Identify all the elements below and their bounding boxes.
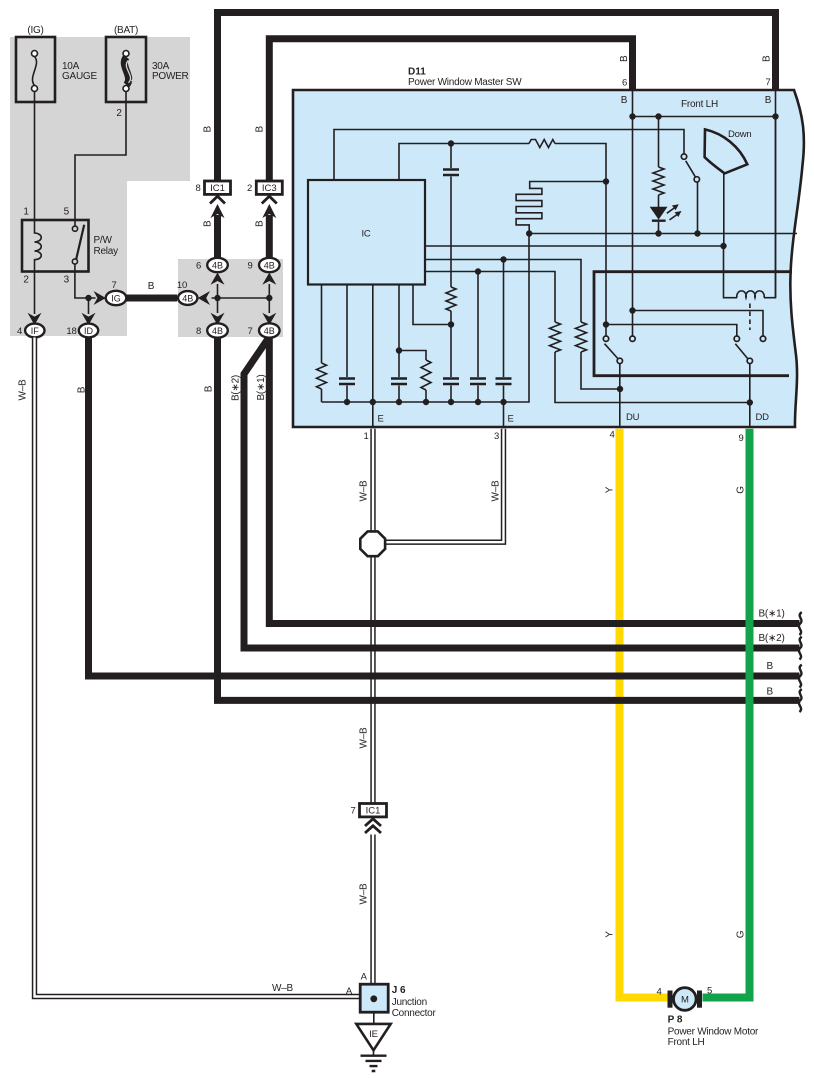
svg-text:8: 8 [196, 326, 201, 337]
connector solid arrow under IC3 [262, 204, 276, 218]
capacitor C6 [391, 379, 407, 385]
svg-text:W–B: W–B [491, 480, 502, 502]
LED emission arrows [667, 204, 682, 220]
wire net310 to DD contact right [633, 311, 764, 337]
junction node key switch net233 [694, 230, 700, 236]
junction node DD y402 [747, 399, 753, 405]
junction node relay pin3 branch [85, 295, 91, 301]
arrow into ID [82, 313, 96, 325]
arrow into IF [28, 313, 42, 325]
junction node cap1 top [448, 140, 454, 146]
svg-text:4: 4 [656, 987, 661, 998]
svg-text:2: 2 [247, 183, 252, 194]
wire branch down to ID [88, 298, 90, 314]
svg-text:7: 7 [765, 77, 770, 88]
wire J6 to ground [373, 1012, 375, 1024]
wire E1 exit pin1 [372, 402, 374, 427]
svg-text:B: B [77, 386, 88, 393]
svg-text:W–B: W–B [359, 883, 370, 905]
junction node net116 left [629, 113, 635, 119]
arrow into IG oval [94, 291, 106, 305]
connector IC3 pin2 top [247, 181, 282, 194]
ground symbol [361, 1050, 387, 1071]
P/W relay [22, 207, 118, 286]
junction node net116 mid [655, 113, 661, 119]
svg-text:GAUGE: GAUGE [62, 71, 97, 82]
wire W-B pin3 vertical and horizontal to octagon [386, 429, 504, 543]
svg-text:B: B [767, 687, 774, 698]
svg-text:7: 7 [247, 326, 252, 337]
svg-text:Connector: Connector [392, 1008, 437, 1019]
fuse F2 30A POWER (BAT) [106, 25, 189, 119]
svg-text:B: B [255, 126, 266, 133]
svg-text:Down: Down [728, 129, 752, 140]
switch DD fixed contact right [760, 336, 765, 341]
switch DD common contact [747, 358, 752, 363]
wire R6 to bus [321, 389, 323, 402]
wire B thick top run W2 to pin6 of master SW [269, 39, 632, 181]
arrow down into 4B pin7 [262, 313, 276, 325]
solenoid coil L1 [737, 291, 764, 298]
wire node down to cap [450, 325, 452, 378]
junction connector J6 [346, 972, 437, 1020]
wire R7 to bus [425, 390, 427, 402]
wire relay pin3 to IG oval [75, 272, 96, 299]
svg-text:4B: 4B [212, 260, 223, 270]
svg-text:10: 10 [177, 280, 187, 291]
connector solid arrow under IC1 [211, 204, 225, 218]
junction node x606 y324 [603, 321, 609, 327]
junction node 4B bus right [266, 295, 272, 301]
svg-text:Y: Y [605, 931, 616, 938]
svg-text:B: B [148, 281, 155, 292]
connector IC1 pin7 lower box [350, 804, 386, 835]
svg-text:ID: ID [84, 326, 94, 336]
wire R2 to node [450, 311, 452, 325]
wire R4 to net402b [555, 352, 750, 403]
wire Y yellow vertical and to motor [620, 429, 668, 998]
wire IC pin x347 [346, 285, 348, 378]
svg-text:P/W: P/W [94, 235, 113, 246]
wire DD common down to pin9 [749, 364, 751, 427]
wire break squiggle y700 [799, 689, 802, 712]
wire key switch to net233 [697, 182, 699, 234]
svg-text:9: 9 [247, 261, 252, 272]
svg-text:IE: IE [369, 1029, 378, 1040]
svg-text:POWER: POWER [152, 71, 189, 82]
wire 4B internal bus [212, 284, 270, 313]
svg-text:4B: 4B [212, 326, 223, 336]
svg-text:5: 5 [64, 207, 70, 218]
wire coil left lead [724, 246, 738, 298]
arrow up into 4B pin9 [262, 273, 276, 285]
svg-text:7: 7 [111, 280, 116, 291]
switch DU arm [605, 344, 618, 359]
resistor R5 vertical x581 [576, 322, 587, 352]
connector 4B pin7 [247, 323, 279, 337]
wire net116 horizontal [633, 116, 776, 118]
wire B thick IG to 4B [127, 295, 178, 302]
svg-text:B: B [255, 220, 266, 227]
svg-text:E: E [378, 414, 384, 425]
wire fuse BAT pin2 to relay pin5 [75, 92, 126, 221]
svg-text:18: 18 [66, 326, 76, 337]
wire net324 to DD contact left [606, 325, 737, 337]
wire break squiggle y648 [799, 637, 802, 660]
relay switch contact [72, 220, 84, 272]
key-off switch arm [686, 161, 696, 177]
svg-text:8: 8 [195, 183, 200, 194]
wire IC pin x372 E1 [372, 285, 374, 403]
arrow up into 4B pin6 [211, 273, 225, 285]
svg-text:B: B [204, 385, 215, 392]
svg-text:3: 3 [494, 431, 499, 442]
wire G green vertical and to motor [703, 429, 750, 998]
svg-text:B: B [767, 661, 774, 672]
wire IC right pin net259 [425, 260, 581, 323]
svg-text:IC3: IC3 [262, 183, 277, 194]
svg-text:M: M [681, 995, 689, 1006]
wire wedge to coil junction [723, 174, 725, 247]
key-off switch common contact [694, 177, 699, 182]
svg-text:B: B [203, 220, 214, 227]
junction node net116 right [772, 113, 778, 119]
wire R1 to x606 corner [555, 144, 606, 182]
wire DU common down to pin4 [619, 364, 621, 427]
switch DU common contact [617, 358, 622, 363]
motor P8 [656, 986, 759, 1049]
connector IC1 pin8 top [195, 181, 230, 194]
wire B thick IC1 arrow to 4B pin6 [214, 215, 221, 259]
wire W-B from IF down and right to J6 [35, 338, 361, 997]
svg-text:6: 6 [196, 261, 201, 272]
svg-text:Power Window Motor: Power Window Motor [668, 1027, 759, 1038]
junction nodes on bus [344, 399, 350, 405]
svg-text:(BAT): (BAT) [114, 25, 138, 36]
wire B thick IC3 arrow to 4B pin9 [266, 215, 273, 259]
switch DU fixed contact left [603, 336, 608, 341]
wire B thick from 4B pin8 corner right [218, 338, 800, 701]
wire B thick top run W1 to pin7 of master SW [218, 13, 776, 182]
connector IG pin7 [106, 280, 127, 305]
wire net233 horizontal [529, 233, 797, 235]
wire E2 exit pin3 [503, 402, 505, 427]
svg-text:P 8: P 8 [668, 1015, 683, 1026]
svg-text:DD: DD [756, 412, 770, 423]
junction node net259 x503 [500, 256, 506, 262]
connector IF pin4 [17, 324, 45, 338]
svg-text:J 6: J 6 [392, 985, 406, 996]
svg-text:G: G [736, 486, 747, 494]
wire coil right lead [764, 117, 776, 298]
junction node x632 y310 [629, 307, 635, 313]
svg-text:4: 4 [609, 430, 614, 441]
svg-text:2: 2 [116, 108, 122, 119]
svg-text:(IG): (IG) [27, 25, 43, 36]
svg-text:IF: IF [31, 326, 40, 336]
svg-text:5: 5 [707, 986, 712, 997]
switch unit box thick border [594, 272, 792, 376]
switch DU fixed contact right [630, 336, 635, 341]
LED D1 [650, 207, 668, 234]
svg-text:IG: IG [111, 293, 121, 303]
octagon splice node [360, 531, 385, 556]
gray background block 4B junction [178, 259, 283, 337]
svg-text:2: 2 [23, 275, 29, 286]
svg-text:B: B [621, 95, 628, 106]
connector arrow chevron under IC3 [262, 196, 277, 203]
wire B(*1) thick from 4B pin7 [269, 338, 799, 624]
svg-text:B: B [203, 126, 214, 133]
wire pin6 B down [632, 90, 634, 336]
svg-text:6: 6 [622, 78, 627, 89]
arrow down into 4B pin8 [211, 313, 225, 325]
svg-text:IC: IC [361, 229, 370, 240]
svg-text:B: B [762, 55, 773, 62]
svg-text:IC1: IC1 [210, 183, 225, 194]
junction node 4B bus left [214, 295, 220, 301]
wire break squiggle y676 [799, 665, 802, 688]
resistor R6 vertical x321 [317, 363, 327, 389]
wire R3 to LED [658, 195, 660, 207]
IC U1 block [308, 180, 425, 285]
svg-text:9: 9 [738, 433, 743, 444]
svg-text:B(∗2): B(∗2) [759, 633, 785, 644]
resistor R2 vertical [446, 287, 456, 311]
connector ID pin18 [66, 324, 98, 338]
wire IC top pin A to key switch [334, 130, 684, 181]
capacitor C2 [443, 379, 459, 385]
junction node x399 y350 [396, 347, 402, 353]
wire x478 chain down [477, 272, 479, 378]
mechanical dashed link coil to DD switch [749, 304, 751, 331]
svg-text:Front LH: Front LH [668, 1037, 705, 1048]
capacitor C4 [470, 379, 486, 385]
gray background block fuses and relay [10, 37, 190, 336]
svg-text:Front LH: Front LH [681, 99, 718, 110]
wire LED chain from net116 [658, 117, 660, 168]
svg-text:W–B: W–B [18, 379, 29, 401]
wire IC top pin B [399, 144, 529, 181]
svg-text:7: 7 [350, 806, 355, 817]
arrow into 4B pin10 [198, 291, 210, 305]
svg-text:A: A [346, 986, 353, 997]
connector arrow chevron under IC1 [210, 196, 225, 203]
svg-text:B: B [765, 95, 772, 106]
svg-text:B(∗1): B(∗1) [759, 609, 785, 620]
junction node net271 x478 [475, 268, 481, 274]
svg-text:W–B: W–B [359, 727, 370, 749]
capacitor C3 [496, 379, 512, 385]
svg-text:W–B: W–B [272, 983, 294, 994]
wire x606 down to DU contact [605, 182, 607, 337]
switch DD fixed contact left [734, 336, 739, 341]
svg-text:4B: 4B [264, 326, 275, 336]
svg-text:D11: D11 [408, 67, 426, 78]
wire break squiggle y623 [799, 612, 802, 635]
svg-text:3: 3 [64, 275, 70, 286]
svg-text:Relay: Relay [94, 246, 119, 257]
svg-text:Power Window Master SW: Power Window Master SW [408, 77, 522, 88]
IC bottom pin wires [321, 285, 323, 364]
wire B thick from ID corner right [89, 338, 800, 677]
ground triangle IE [356, 1024, 390, 1050]
wire W-B pin1 vertical to J6 [370, 429, 375, 984]
wire branch to R7 [399, 351, 426, 361]
svg-text:B(∗2): B(∗2) [231, 375, 242, 401]
svg-text:Y: Y [605, 486, 616, 493]
svg-text:Junction: Junction [392, 997, 427, 1008]
svg-text:B: B [619, 55, 630, 62]
svg-text:4B: 4B [264, 260, 275, 270]
junction node DU y389 [617, 386, 623, 392]
svg-text:4: 4 [17, 326, 22, 337]
junction node x606 y181 [603, 178, 609, 184]
resistor R4 vertical x555 [550, 322, 561, 352]
connector arrow chevrons under lower IC1 [365, 819, 381, 833]
wire IC pin x399 [398, 285, 400, 378]
svg-text:A: A [361, 972, 368, 983]
capacitor C1 [443, 144, 459, 288]
wire B(*2) thick branch diagonal [244, 340, 800, 649]
resistor R1 horizontal [529, 140, 555, 148]
wire fuse IG to relay pin1 [34, 92, 36, 221]
resistor R7 vertical x426 [421, 360, 431, 390]
connector 4B pin10 [177, 280, 197, 305]
wire R5 to DU node [581, 352, 620, 389]
wire IC right pin net246 [425, 245, 724, 247]
svg-text:DU: DU [626, 412, 640, 423]
svg-text:B(∗1): B(∗1) [256, 374, 267, 400]
capacitor C5 [339, 379, 355, 385]
connector 4B pin9 [247, 258, 279, 272]
connector 4B pin8 [196, 323, 228, 337]
junction node R2 bottom [448, 321, 454, 327]
svg-text:4B: 4B [182, 293, 193, 303]
svg-text:E: E [508, 414, 514, 425]
fuse F1 10A GAUGE (IG) [16, 25, 97, 102]
junction node LED bottom [655, 230, 661, 236]
switch DD arm [735, 344, 747, 359]
wire pin7 B down to coil [775, 90, 777, 298]
relay coil [35, 220, 42, 272]
svg-text:G: G [736, 930, 747, 938]
switch paddle Down wedge [705, 129, 748, 173]
wire IC right pin net271 [425, 272, 555, 323]
junction node net246 [720, 243, 726, 249]
component D11 Power Window Master SW box [293, 67, 804, 428]
svg-text:IC1: IC1 [366, 806, 381, 817]
resistor R3 vertical LED [653, 167, 664, 195]
svg-text:1: 1 [363, 431, 368, 442]
ground bus net402 [322, 234, 530, 403]
key-off switch contact [681, 154, 686, 159]
svg-text:1: 1 [23, 207, 29, 218]
junction node meander bottom [526, 230, 532, 236]
wire relay pin2 to IF [34, 272, 36, 315]
meander resistor RM [516, 182, 606, 234]
connector 4B pin6 [196, 258, 228, 272]
wire x503 E2 chain down [503, 260, 505, 378]
svg-text:W–B: W–B [359, 480, 370, 502]
wire L-branch node to IC bottom [413, 285, 451, 325]
